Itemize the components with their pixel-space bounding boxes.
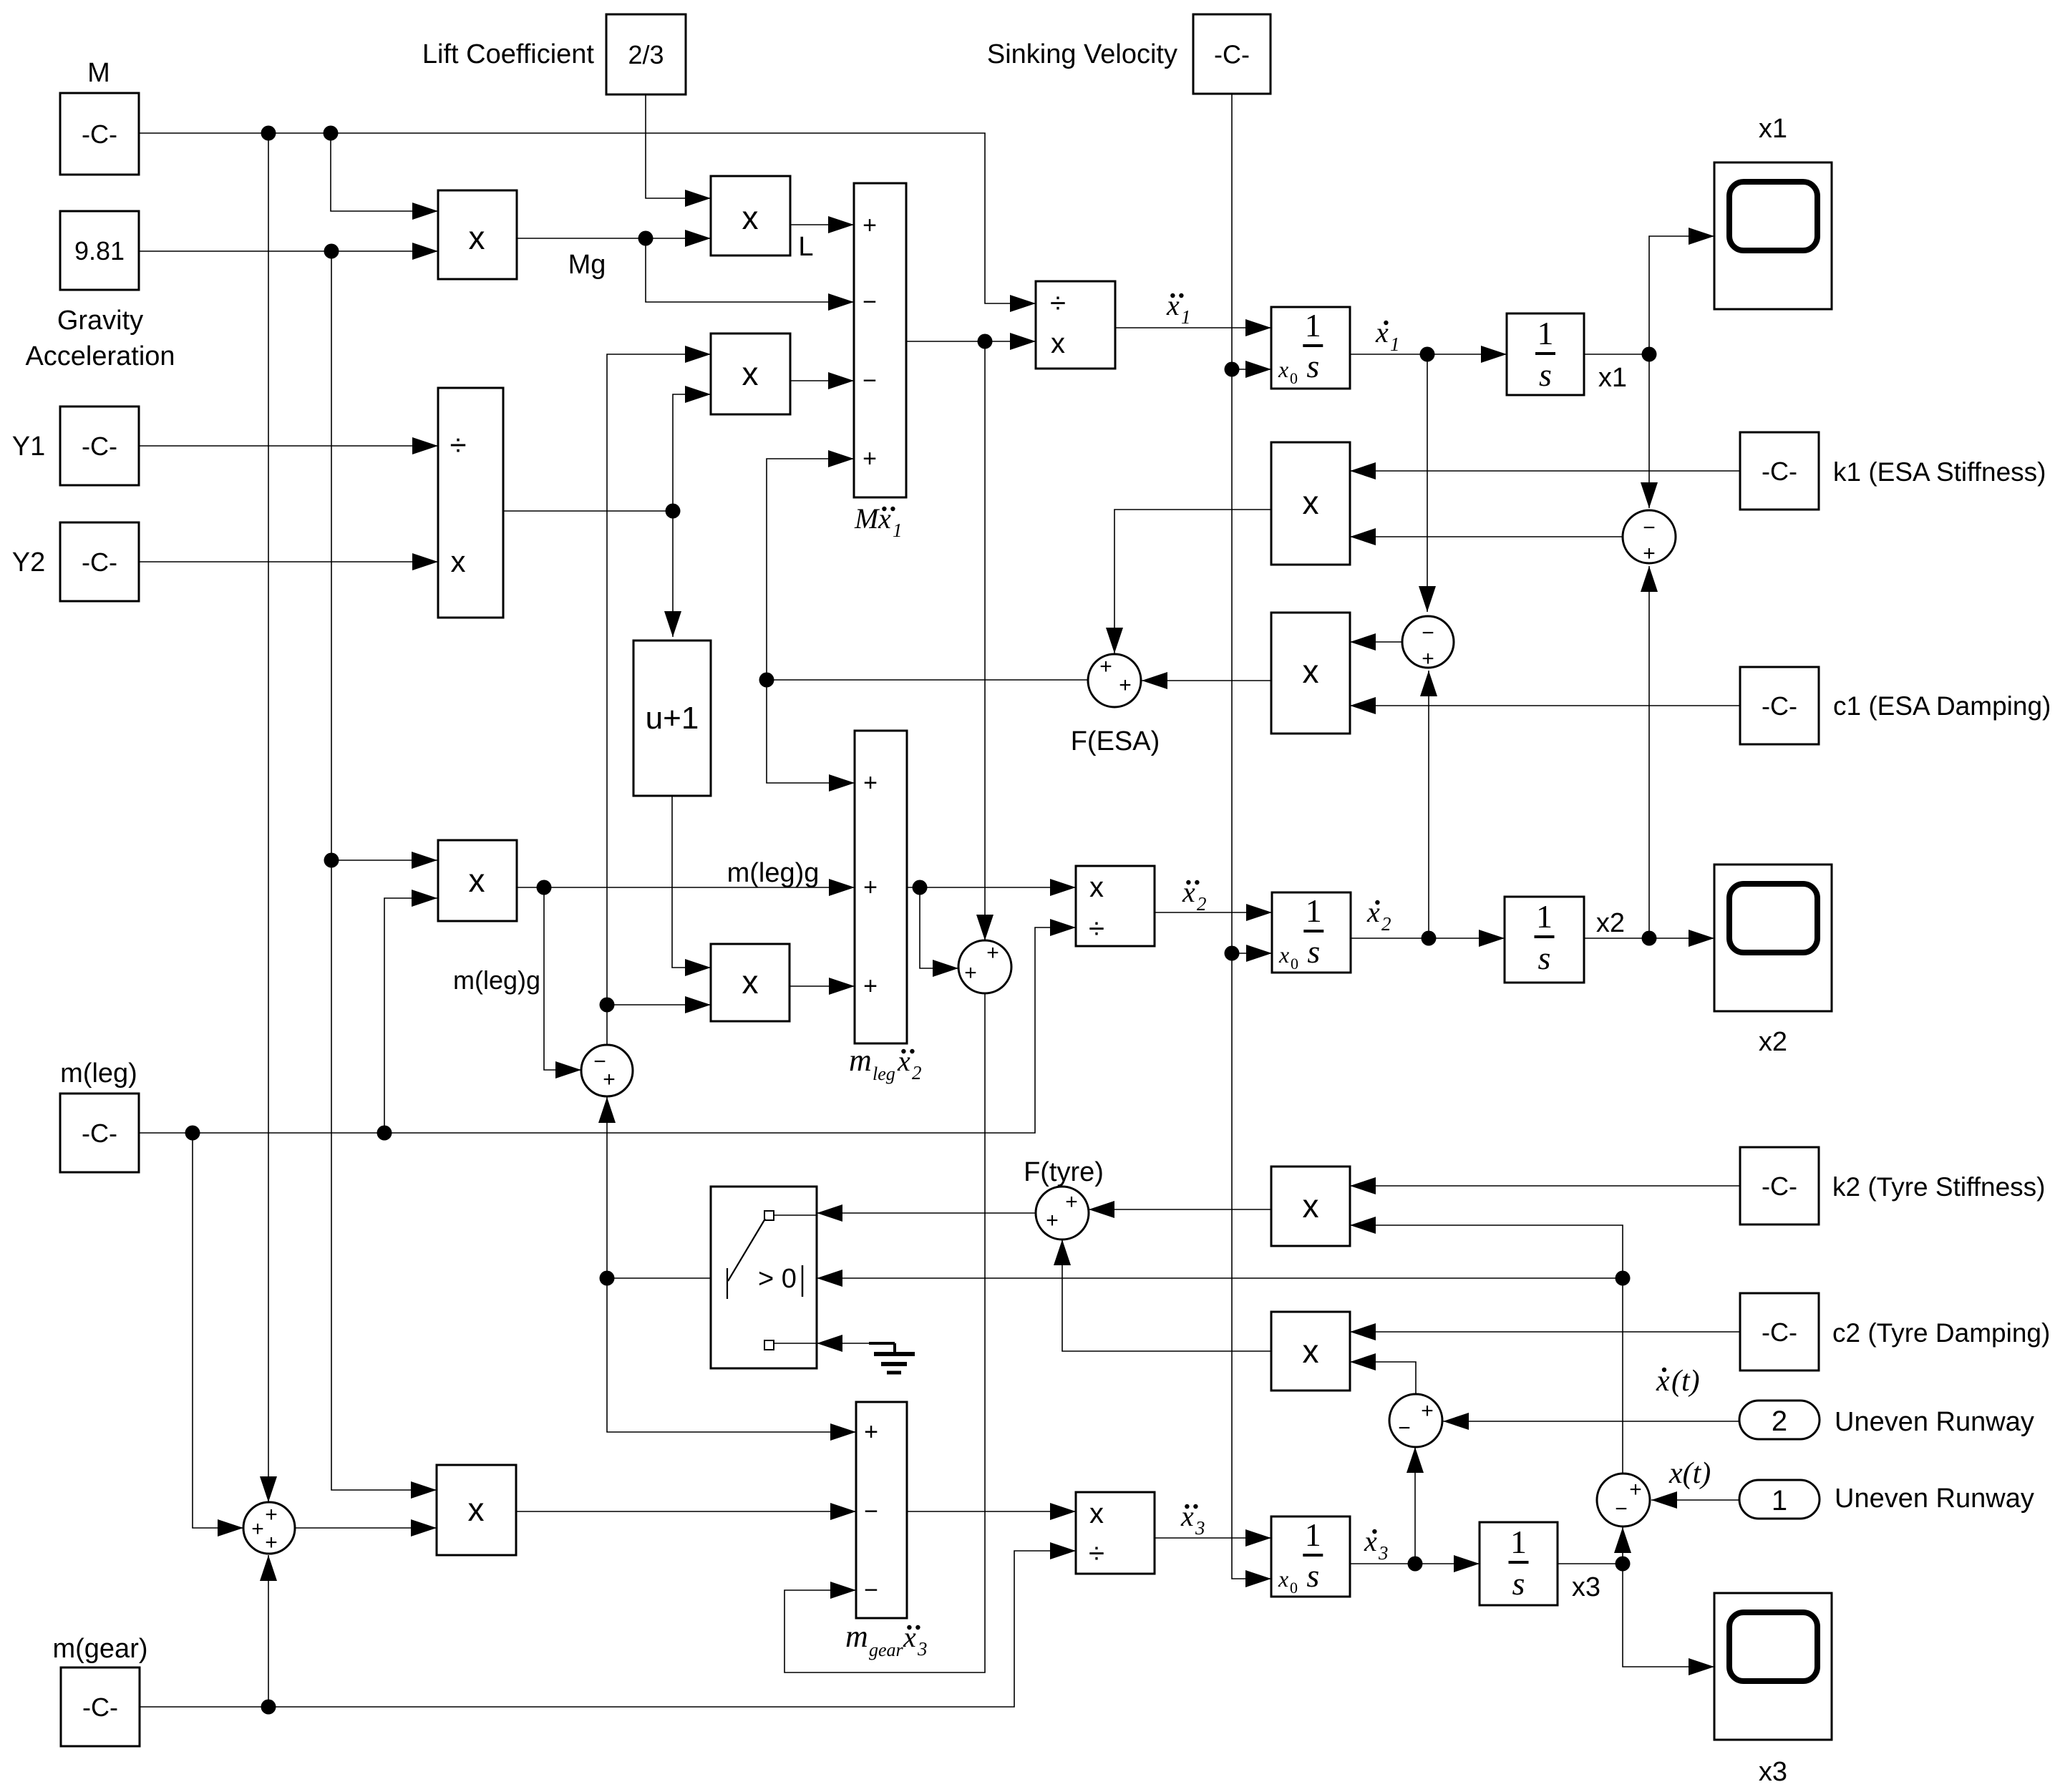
- wire M branch to product Mxg input 1: [331, 133, 438, 211]
- svg-text:+: +: [863, 973, 878, 1000]
- svg-text:x1: x1: [1598, 363, 1627, 393]
- svg-text:x1: x1: [1759, 114, 1787, 144]
- svg-text:x: x: [468, 1491, 485, 1528]
- constant m(leg): [60, 1094, 139, 1172]
- switch block: [711, 1187, 817, 1368]
- svg-text:−: −: [1643, 516, 1656, 540]
- svg-text:-C-: -C-: [82, 547, 117, 577]
- svg-text:Acceleration: Acceleration: [25, 341, 175, 371]
- wire acceleration x3 to integrator 3: [1155, 1537, 1271, 1539]
- svg-text:Gravity: Gravity: [57, 306, 143, 336]
- svg-text:x2: x2: [1596, 908, 1625, 938]
- wire m(leg)g product to sum mleg port 2: [517, 887, 855, 888]
- svg-text:x3: x3: [1759, 1757, 1787, 1787]
- wire product X3 to sum Mx1 port 3: [790, 380, 854, 381]
- svg-text:÷: ÷: [1089, 1538, 1104, 1569]
- wire 2/3 lift coefficient to lift product input 1: [646, 94, 711, 198]
- svg-text:s: s: [1539, 356, 1552, 393]
- svg-text:+: +: [265, 1503, 278, 1526]
- wire F(ESA) to sums: [767, 679, 1089, 681]
- svg-text:0: 0: [1290, 369, 1298, 387]
- wire velocity x1dot to 1/s block: [1350, 354, 1507, 355]
- svg-text:+: +: [1099, 655, 1112, 678]
- wire gravity branch down to product m(gear)xg: [331, 251, 437, 1490]
- integrator 1/s block 3: [1480, 1522, 1558, 1605]
- svg-text:x(t): x(t): [1668, 1457, 1711, 1490]
- svg-text:m: m: [845, 1619, 868, 1654]
- svg-text:+: +: [1421, 1399, 1434, 1423]
- divider Y1 over Y2: [438, 388, 503, 618]
- svg-text:Uneven Runway: Uneven Runway: [1835, 1484, 2034, 1514]
- svg-text:−: −: [1422, 621, 1434, 645]
- svg-text:-C-: -C-: [1762, 457, 1797, 486]
- svg-text:Mg: Mg: [568, 250, 606, 280]
- svg-text:1: 1: [1306, 892, 1322, 929]
- product X3: [711, 333, 790, 414]
- wire u branch to product X5 input 2: [607, 1004, 711, 1005]
- svg-text:u+1: u+1: [646, 701, 699, 736]
- integrator 3 1/x0s: [1271, 1516, 1350, 1597]
- svg-text:+: +: [1629, 1478, 1642, 1501]
- svg-text:m: m: [849, 1043, 872, 1078]
- integrator 1/s block 2: [1505, 897, 1584, 983]
- wire x1 branch up to scope x1: [1649, 236, 1714, 354]
- svg-text:L: L: [798, 232, 813, 262]
- wire c1 constant to product c1: [1350, 705, 1740, 706]
- svg-text:−: −: [863, 288, 877, 316]
- product c1 damping: [1271, 613, 1350, 734]
- wire x3dot branch up to runway velocity sum: [1414, 1447, 1416, 1564]
- scope x3: [1714, 1593, 1832, 1740]
- wire product k1 to F(ESA) sum top: [1114, 510, 1271, 653]
- wire sum mgear output to divide mgear: [907, 1511, 1076, 1512]
- wire m(leg) branch up to product m(leg)xg input 2: [384, 898, 437, 1133]
- svg-text:+: +: [251, 1517, 264, 1541]
- integrator 1 1/x0s: [1271, 307, 1350, 389]
- product X5: [711, 944, 790, 1021]
- svg-text:(t): (t): [1671, 1365, 1700, 1398]
- svg-text:x: x: [1303, 484, 1319, 521]
- constant c2: [1740, 1293, 1819, 1370]
- wire m(leg)g branch down to sum u left input: [544, 887, 581, 1070]
- wire k2 constant to product k2: [1350, 1185, 1740, 1187]
- wire x1dot branch down to velocity difference sum: [1427, 354, 1428, 612]
- wire mleg x2 branch down to plus-plus sum left: [920, 887, 958, 968]
- wire runway velocity difference to product c2 input 2: [1350, 1362, 1416, 1393]
- svg-text:M: M: [854, 502, 880, 535]
- svg-text:+: +: [1046, 1209, 1059, 1232]
- svg-text:x: x: [742, 199, 759, 236]
- svg-text:-C-: -C-: [1762, 1318, 1797, 1347]
- scope x2: [1714, 865, 1832, 1011]
- sum F(ESA) circle: [1088, 654, 1141, 707]
- constant k1: [1740, 432, 1819, 510]
- wire ratio branch down to u+1 input: [672, 511, 674, 637]
- wire ground to switch input 3: [817, 1343, 869, 1344]
- svg-text:Y1: Y1: [12, 432, 45, 462]
- integrator 2 1/x0s: [1272, 892, 1351, 973]
- constant lift coefficient 2/3: [606, 14, 686, 94]
- constant sinking velocity: [1193, 14, 1271, 94]
- svg-text:9.81: 9.81: [74, 236, 125, 266]
- wire Mg from product to lift product input 2: [516, 238, 711, 239]
- wire sinking velocity branch to integrator 2 x0: [1232, 953, 1272, 954]
- svg-text:leg: leg: [873, 1063, 895, 1084]
- wire switch output to sum u and sum mgear: [607, 1277, 711, 1279]
- wire x3 branch up to runway position sum: [1622, 1527, 1623, 1564]
- svg-text:x: x: [1278, 356, 1288, 382]
- svg-text:1: 1: [1390, 333, 1400, 355]
- constant c1: [1740, 667, 1819, 744]
- ground symbol: [869, 1342, 895, 1345]
- wire sum Mx1 output to divide-by-M input 2: [906, 341, 1036, 342]
- wire sinking velocity to integrator initial conditions: [1232, 94, 1271, 1579]
- svg-text:-C-: -C-: [82, 1693, 118, 1722]
- svg-text:M: M: [87, 58, 110, 88]
- svg-text:-C-: -C-: [82, 432, 117, 461]
- svg-text:x: x: [742, 355, 759, 392]
- wire product c2 to F(tyre) sum bottom: [1062, 1240, 1271, 1351]
- svg-text:1: 1: [1510, 1524, 1527, 1560]
- svg-text:0: 0: [1290, 1579, 1298, 1597]
- wire product k2 to F(tyre) sum right: [1089, 1209, 1271, 1210]
- svg-text:1: 1: [893, 520, 903, 541]
- constant k2: [1740, 1147, 1819, 1224]
- svg-text:-C-: -C-: [1214, 40, 1250, 69]
- svg-text:s: s: [1306, 348, 1319, 384]
- svg-text:-C-: -C-: [1762, 1172, 1797, 1201]
- sum block M x1dotdot: [854, 183, 906, 497]
- wire x2 position to scope x2: [1584, 938, 1714, 939]
- wire mass sum to product total mass x g: [295, 1527, 437, 1529]
- svg-text:-C-: -C-: [82, 1119, 117, 1148]
- wire x3 branch down to scope x3: [1623, 1564, 1714, 1667]
- svg-text:2: 2: [1772, 1406, 1787, 1437]
- svg-text:x: x: [742, 963, 759, 1000]
- svg-text:x: x: [1089, 1498, 1104, 1529]
- sum xdot(t) minus x3dot circle: [1389, 1394, 1442, 1447]
- wire inport 2 to runway velocity sum: [1443, 1421, 1741, 1422]
- wire F(tyre) sum to switch input 1: [817, 1212, 1036, 1214]
- wire Mx1 branch down to plus-plus sum: [984, 341, 986, 940]
- svg-text:-C-: -C-: [1762, 691, 1797, 721]
- svg-text:Lift Coefficient: Lift Coefficient: [422, 39, 595, 69]
- product c2 damping: [1271, 1312, 1350, 1391]
- wire gravity branch to product m(leg)xg input 1: [331, 860, 437, 861]
- svg-text:2: 2: [912, 1062, 922, 1084]
- svg-text:x: x: [451, 545, 466, 578]
- svg-text:m(gear): m(gear): [52, 1634, 147, 1664]
- wire velocity difference sum to product c1: [1350, 641, 1401, 643]
- svg-text:+: +: [603, 1068, 616, 1091]
- product k1 stiffness: [1271, 442, 1350, 565]
- constant gravity 9.81: [60, 211, 139, 290]
- sum u circle: [581, 1045, 633, 1096]
- sum m_gear x3dotdot block: [856, 1402, 907, 1618]
- wire control branch to switch threshold input: [817, 1277, 1623, 1279]
- constant Y1: [60, 406, 139, 485]
- wire m(leg) constant to divide mleg: [138, 927, 1076, 1133]
- svg-text:+: +: [1119, 673, 1132, 697]
- svg-text:x: x: [1278, 942, 1289, 968]
- wire x2 position up to position difference sum: [1648, 566, 1650, 938]
- svg-text:+: +: [964, 961, 977, 985]
- wire x3 position junction: [1558, 1563, 1623, 1564]
- svg-text:1: 1: [1305, 1516, 1321, 1553]
- wire u+1 output to product X5 input 1: [672, 796, 711, 968]
- svg-text:s: s: [1307, 933, 1320, 970]
- svg-text:+: +: [863, 874, 878, 901]
- svg-text:+: +: [863, 212, 877, 239]
- svg-text:x: x: [469, 862, 485, 899]
- svg-text:c2 (Tyre Damping): c2 (Tyre Damping): [1832, 1318, 2050, 1348]
- inport 1 uneven runway: [1739, 1480, 1820, 1519]
- wire m(gear) constant to divide mgear: [139, 1551, 1076, 1707]
- svg-text:F(tyre): F(tyre): [1024, 1157, 1104, 1187]
- wire velocity x2dot to 1/s block 2: [1351, 938, 1505, 939]
- wire product X5 to sum mleg port 3: [790, 985, 855, 987]
- wire x2dot up to velocity difference sum: [1428, 671, 1429, 938]
- integrator 1/s block 1: [1507, 313, 1584, 395]
- svg-text:0: 0: [1291, 955, 1298, 973]
- wire total weight to sum mgear port 2: [516, 1511, 856, 1512]
- constant Y2: [60, 522, 139, 601]
- sum x(t) minus x3 circle: [1597, 1474, 1650, 1526]
- svg-text:1: 1: [1181, 306, 1191, 328]
- svg-text:+: +: [986, 941, 999, 965]
- svg-text:1: 1: [1305, 307, 1321, 344]
- svg-text:2: 2: [1197, 893, 1207, 915]
- wire m(leg) branch down to mass sum left: [193, 1133, 243, 1528]
- svg-text:x2: x2: [1759, 1027, 1787, 1057]
- scope x1: [1714, 162, 1832, 309]
- wire c2 constant to product c2: [1350, 1331, 1740, 1333]
- divide by m(gear) for x3dotdot: [1076, 1492, 1155, 1574]
- wire lift L to sum Mx1 port 1: [790, 224, 854, 225]
- svg-text:Y2: Y2: [12, 547, 45, 578]
- svg-text:−: −: [864, 1577, 878, 1604]
- svg-text:+: +: [864, 1418, 878, 1446]
- wire switch branch down to sum mgear port 1: [607, 1278, 856, 1432]
- wire plus-plus sum down to sum mgear port 3: [784, 993, 985, 1672]
- svg-text:x: x: [1278, 1566, 1288, 1592]
- svg-text:x: x: [1303, 1333, 1319, 1370]
- divide by M for x1dotdot: [1036, 281, 1115, 369]
- svg-text:c1 (ESA Damping): c1 (ESA Damping): [1833, 691, 2051, 721]
- wire runway difference to product k2 input 2: [1350, 1225, 1623, 1473]
- product lift L: [711, 176, 790, 255]
- wire sum u output up to product X3 input 1: [607, 354, 711, 1045]
- svg-text:gear: gear: [869, 1640, 904, 1660]
- wire sum mleg output to divide mleg: [907, 887, 1076, 888]
- product k2 stiffness: [1271, 1167, 1350, 1246]
- constant m(gear): [61, 1667, 140, 1746]
- svg-text:x: x: [1089, 872, 1104, 903]
- svg-text:s: s: [1512, 1565, 1525, 1602]
- svg-text:m(leg): m(leg): [60, 1058, 137, 1089]
- svg-text:Sinking Velocity: Sinking Velocity: [987, 39, 1177, 69]
- wire F(ESA) branch up to sum Mx1 port 4: [767, 459, 854, 680]
- svg-text:3: 3: [917, 1638, 928, 1660]
- wire velocity x3dot to 1/s block 3: [1350, 1563, 1480, 1564]
- svg-text:k1 (ESA Stiffness): k1 (ESA Stiffness): [1833, 457, 2046, 487]
- svg-text:+: +: [1643, 542, 1656, 565]
- svg-text:−: −: [1398, 1416, 1411, 1440]
- sum m_leg x2dotdot block: [855, 731, 907, 1043]
- svg-text:x: x: [1051, 328, 1065, 359]
- svg-text:k2 (Tyre Stiffness): k2 (Tyre Stiffness): [1832, 1172, 2045, 1202]
- inport 2 uneven runway: [1739, 1401, 1820, 1439]
- svg-text:÷: ÷: [1089, 913, 1104, 945]
- product M x g: [438, 190, 517, 279]
- svg-text:+: +: [863, 445, 877, 472]
- plus-plus sum circle: [958, 940, 1011, 993]
- wire inport 1 to runway position sum: [1651, 1499, 1741, 1501]
- svg-text:−: −: [864, 1498, 878, 1525]
- u+1 block: [633, 641, 711, 796]
- svg-text:m(leg)g: m(leg)g: [453, 965, 540, 995]
- wire M branch down to mass sum: [268, 133, 269, 1502]
- svg-text:+: +: [1422, 647, 1434, 671]
- svg-text:÷: ÷: [450, 428, 466, 462]
- wire position difference sum to product k1: [1350, 536, 1622, 537]
- wire F(ESA) branch down to sum mleg port 1: [767, 680, 855, 783]
- svg-text:x: x: [1303, 1187, 1319, 1224]
- wire product c1 to F(ESA) sum right: [1142, 680, 1271, 681]
- svg-text:> 0: > 0: [758, 1264, 797, 1294]
- svg-text:Uneven Runway: Uneven Runway: [1835, 1407, 2034, 1437]
- divide by m(leg) for x2dotdot: [1076, 866, 1155, 946]
- wire Y1/Y2 ratio to product X3 and u+1: [503, 510, 673, 512]
- sum F(tyre) circle: [1036, 1187, 1089, 1240]
- svg-text:-C-: -C-: [82, 120, 117, 149]
- svg-text:−: −: [863, 367, 877, 394]
- mass sum circle: [243, 1502, 295, 1554]
- svg-text:+: +: [265, 1531, 278, 1554]
- svg-text:3: 3: [1378, 1542, 1389, 1564]
- wire M constant to divide-by-M input: [138, 133, 1036, 303]
- svg-text:s: s: [1538, 940, 1551, 976]
- svg-text:2: 2: [1381, 913, 1391, 935]
- svg-text:x: x: [1303, 653, 1319, 690]
- wire sinking velocity branch to integrator 1 x0: [1232, 369, 1271, 370]
- wire Y2 to divider input: [138, 561, 438, 563]
- wire x1 position to scope x1: [1584, 354, 1649, 355]
- svg-text:x3: x3: [1572, 1572, 1600, 1602]
- svg-text:F(ESA): F(ESA): [1071, 726, 1160, 756]
- wire k1 constant to product k1: [1350, 470, 1740, 472]
- wire 9.81 gravity to product Mxg input 2: [138, 250, 438, 252]
- svg-text:÷: ÷: [1050, 288, 1066, 319]
- wire Y1 to divider input: [138, 445, 438, 447]
- wire acceleration x2 to integrator 2: [1155, 912, 1272, 913]
- product m(leg) x g: [438, 840, 517, 921]
- wire m(gear) branch up to mass sum bottom: [268, 1555, 269, 1707]
- svg-text:−: −: [1615, 1497, 1628, 1521]
- wire switch branch up to sum u bottom: [606, 1097, 608, 1278]
- svg-text:+: +: [1065, 1190, 1078, 1214]
- sum x2dot minus x1dot circle: [1402, 616, 1454, 668]
- svg-text:1: 1: [1537, 315, 1554, 351]
- product total mass x g: [437, 1465, 516, 1555]
- wire x1 branch down to position difference sum: [1648, 354, 1650, 508]
- svg-text:3: 3: [1195, 1517, 1205, 1539]
- wire acceleration x1 to integrator 1: [1115, 327, 1271, 328]
- constant M: [60, 93, 139, 175]
- svg-text:m(leg)g: m(leg)g: [727, 858, 820, 888]
- svg-text:+: +: [863, 769, 878, 797]
- wire Mg branch down to sum Mx1 port 2: [646, 238, 854, 302]
- svg-text:s: s: [1306, 1557, 1319, 1594]
- svg-text:x: x: [469, 219, 485, 256]
- svg-text:2/3: 2/3: [628, 40, 664, 69]
- wire ratio branch up to product X3 input 2: [673, 394, 711, 511]
- svg-text:1: 1: [1536, 898, 1553, 935]
- sum x2 minus x1 circle: [1623, 510, 1676, 563]
- svg-text:1: 1: [1772, 1485, 1787, 1516]
